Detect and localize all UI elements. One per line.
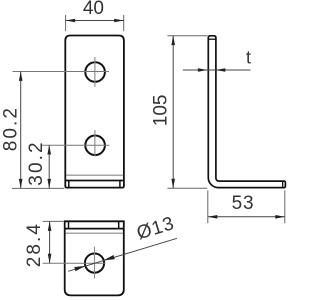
dim 40 arrow left (66, 19, 76, 23)
hole 2 (lower) (85, 136, 105, 156)
dim 53 arrow right (275, 215, 285, 219)
svg-text:40: 40 (83, 0, 104, 19)
dim 80.2 bottom extension (12, 187, 64, 189)
front view flange right edge (119, 181, 121, 188)
svg-text:28.4: 28.4 (24, 222, 45, 267)
front view plate outline (65, 36, 124, 188)
dia 13 arrow lower left (74, 266, 85, 271)
dim 105 arrow down (171, 179, 175, 189)
dim t line (183, 69, 251, 71)
dim 30.2 line (48, 145, 50, 188)
front view flange left edge (68, 181, 70, 188)
dim 28.4 arrow up (48, 221, 52, 231)
bottom view flange left edge (68, 221, 70, 228)
dim 28.4 arrow down (48, 254, 52, 264)
bottom view bend line (thick) (66, 228, 124, 230)
dim 105 top extension (167, 35, 207, 37)
dim 28.4 top extension (43, 220, 64, 222)
dim 105 line (172, 36, 174, 189)
svg-text:53: 53 (232, 193, 255, 214)
dia 13 arrow upper right (104, 255, 115, 260)
dim 80.2 line (20, 71, 22, 188)
dim 53 line (208, 216, 285, 218)
side view end edge radius line (282, 181, 284, 188)
side view L profile (208, 36, 285, 188)
dim 80.2 arrow up (19, 71, 23, 81)
svg-text:30.2: 30.2 (26, 140, 47, 185)
svg-text:80.2: 80.2 (0, 106, 21, 151)
front view bend line (thick) (66, 180, 123, 182)
dim t arrow pointing right (198, 68, 208, 72)
dim 53 left extension (207, 191, 209, 224)
dim 40 extension line right (123, 15, 125, 31)
hole 2 vertical centerline (94, 130, 96, 156)
dim 105 bottom extension (167, 187, 207, 189)
dim 40 line (66, 20, 124, 22)
bottom view outline (65, 221, 124, 295)
hole 1 (upper) (85, 62, 105, 82)
hole 1 horizontal centerline / 80.2 extension (13, 71, 110, 73)
dim 28.4 line (49, 221, 51, 263)
svg-text:105: 105 (150, 95, 171, 127)
hole 1 vertical centerline (94, 57, 96, 87)
dim 53 arrow left (208, 215, 218, 219)
bottom view flange right edge (118, 221, 120, 228)
hole 2 horizontal centerline / 30.2 extension (41, 144, 110, 146)
dim 105 arrow up (171, 36, 175, 46)
bottom hole vertical centerline (94, 247, 96, 279)
dim 40 arrow right (114, 19, 124, 23)
bottom hole horizontal centerline / 28.4 extension (43, 262, 106, 264)
dia 13 leader line (68, 238, 177, 271)
svg-text:t: t (246, 48, 251, 68)
bottom view hole (85, 254, 104, 273)
dim 53 right extension (284, 191, 286, 224)
dim 80.2 arrow down (19, 179, 23, 189)
side view top edge radius line (208, 38, 216, 40)
dim t arrow pointing left (216, 68, 226, 72)
dim 30.2 arrow up (47, 145, 51, 155)
bottom view bend tangent line (thin) (66, 232, 124, 234)
front view bend tangent line (thin) (66, 174, 123, 176)
dim 30.2 arrow down (47, 179, 51, 189)
dim 40 extension line left (65, 15, 67, 31)
